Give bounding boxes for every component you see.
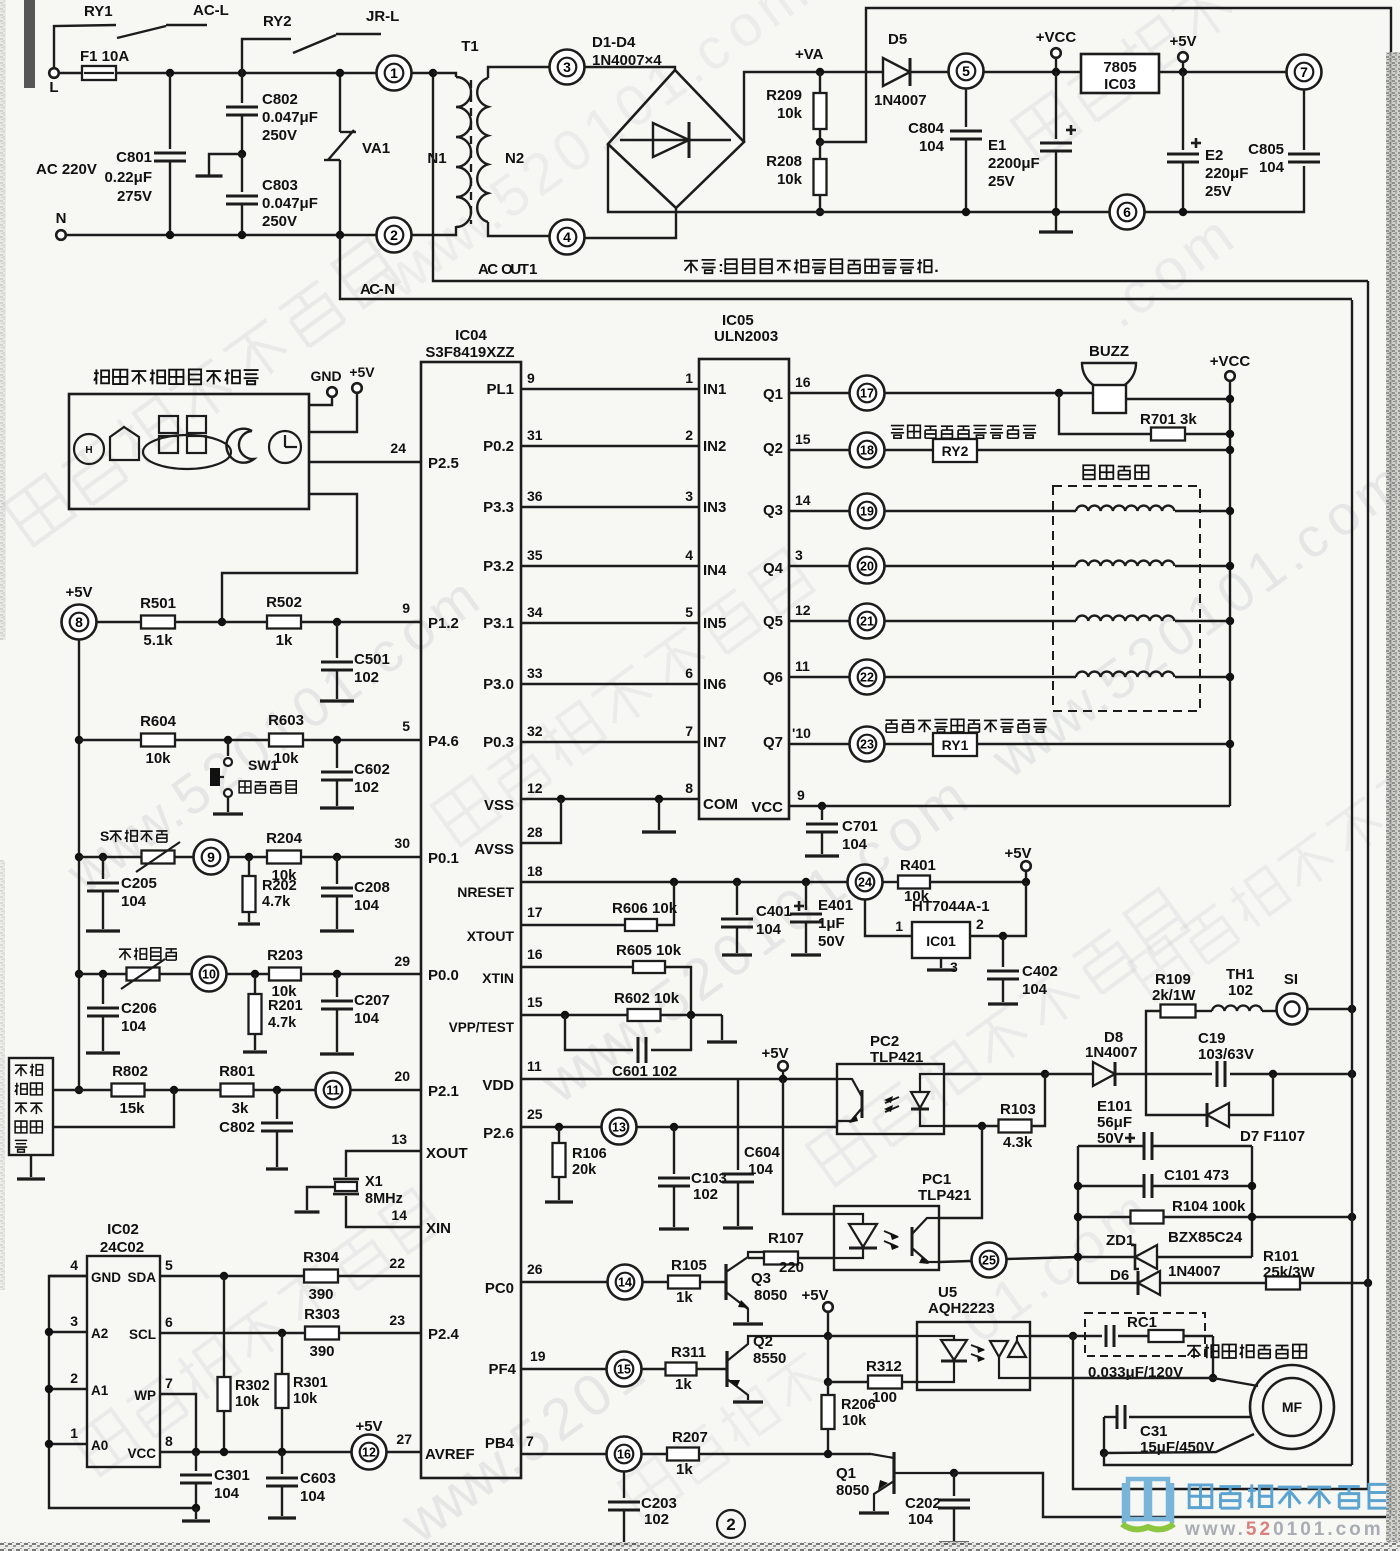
svg-text:6: 6 (165, 1314, 173, 1330)
node C101 r (1248, 1182, 1256, 1190)
wire L to fuse (59, 72, 82, 74)
wire VPP/TEST pin15 (521, 1014, 627, 1016)
svg-text:1N4007: 1N4007 (1085, 1044, 1138, 1061)
svg-text:9: 9 (527, 370, 535, 386)
wire RY2 to +VCC (977, 449, 1230, 451)
svg-text:VCC: VCC (127, 1446, 156, 1461)
svg-text:F1 10A: F1 10A (80, 48, 129, 65)
wire C31 left down (1103, 1417, 1105, 1453)
svg-text:XTOUT: XTOUT (467, 928, 515, 944)
test point 23 (850, 727, 885, 762)
svg-text:R701 3k: R701 3k (1140, 411, 1197, 428)
svg-text:21: 21 (860, 615, 874, 629)
wire stepper row pin12 (789, 620, 849, 622)
capacitor C206 104 (102, 974, 104, 1004)
label fan motor (1187, 1344, 1306, 1358)
svg-text:7: 7 (685, 723, 693, 739)
svg-text:N: N (56, 210, 67, 227)
node VSS a (557, 795, 565, 803)
test point 24 (848, 865, 883, 900)
svg-text:C603: C603 (300, 1470, 336, 1487)
bridge rectifier D1-D4 (608, 70, 744, 208)
capacitor C103 102 (673, 1127, 675, 1174)
svg-text:23: 23 (389, 1312, 405, 1328)
resistor R303 390 (305, 1327, 339, 1340)
svg-text:0.22μF: 0.22μF (104, 169, 152, 186)
svg-text:T1: T1 (461, 38, 479, 55)
svg-text:32: 32 (527, 723, 543, 739)
svg-text:Q2: Q2 (763, 440, 783, 457)
svg-text:VSS: VSS (484, 797, 514, 814)
capacitor C805 104 (1303, 89, 1305, 150)
svg-text:103/63V: 103/63V (1198, 1046, 1254, 1063)
wire TP3 to bridge (585, 67, 675, 71)
wire AVSS (521, 799, 561, 843)
svg-text:1k: 1k (676, 1461, 693, 1478)
svg-text:E1: E1 (988, 137, 1006, 154)
wire motor lead 1 (1213, 1378, 1258, 1386)
svg-text:-: - (379, 281, 384, 298)
svg-text:C802: C802 (219, 1119, 255, 1136)
svg-text:A0: A0 (91, 1438, 108, 1453)
logo book icon (1124, 1479, 1172, 1523)
logo text blue (1189, 1484, 1388, 1508)
capacitor C202 104 (953, 1473, 955, 1496)
svg-text:27: 27 (396, 1431, 412, 1447)
svg-text:P2.5: P2.5 (428, 455, 459, 472)
test point 19 (850, 494, 885, 529)
svg-text:24: 24 (858, 876, 872, 890)
resistor R107 220 (764, 1252, 798, 1265)
svg-text:1N4007: 1N4007 (874, 92, 927, 109)
svg-text:9: 9 (207, 849, 215, 865)
svg-text:P1.2: P1.2 (428, 615, 459, 632)
svg-text:10k: 10k (273, 750, 299, 767)
svg-text:10k: 10k (235, 1394, 260, 1410)
node C602 (333, 736, 341, 744)
node C101 l (1074, 1182, 1082, 1190)
wire sensor second output (53, 1090, 174, 1127)
svg-text:C803: C803 (262, 177, 298, 194)
node +5V P4.6 (75, 736, 83, 744)
svg-text:R106: R106 (572, 1146, 607, 1162)
test point 9 (194, 840, 229, 875)
node R104 l (1074, 1213, 1082, 1221)
wire PC1 cathode to R107 (798, 1257, 834, 1259)
svg-text:15k: 15k (119, 1100, 145, 1117)
wire IC02 pin 2 (49, 1388, 87, 1390)
svg-text:R105: R105 (671, 1257, 707, 1274)
svg-text:C19: C19 (1198, 1030, 1226, 1047)
svg-text:Q3: Q3 (763, 502, 783, 519)
wire PC1 anode from VDD (783, 1079, 834, 1214)
capacitor C804 104 (965, 89, 967, 127)
svg-text:250V: 250V (262, 127, 297, 144)
svg-text:390: 390 (309, 1343, 334, 1360)
svg-text:3: 3 (950, 959, 958, 975)
diode D8 1N4007 (1045, 1073, 1093, 1075)
node Q2 +5V (824, 1332, 832, 1340)
resistor R603 10k (269, 734, 303, 747)
display icon ellipse (143, 435, 231, 469)
svg-text:R204: R204 (266, 830, 303, 847)
svg-text:PF4: PF4 (488, 1361, 516, 1378)
fuse F1 10A (82, 66, 116, 80)
wire IC01 pin1 (865, 900, 912, 936)
svg-text:13: 13 (391, 1131, 407, 1147)
svg-text:L: L (49, 79, 58, 96)
svg-text:16: 16 (617, 1448, 631, 1462)
svg-text:+5V: +5V (761, 1045, 788, 1062)
svg-text:P2.1: P2.1 (428, 1083, 459, 1100)
svg-text:WP: WP (134, 1388, 156, 1403)
wire R103 to PC1 collector (939, 1126, 982, 1218)
svg-text:D5: D5 (888, 31, 907, 48)
svg-text:IN4: IN4 (703, 562, 727, 579)
test point 10 (192, 957, 227, 992)
wire SCL (160, 1332, 305, 1334)
node VSS b (655, 795, 663, 803)
wire motor box bottom (1104, 1453, 1352, 1465)
svg-text:14: 14 (618, 1276, 632, 1290)
wire U5 triac out (1030, 1377, 1213, 1379)
svg-text:3: 3 (70, 1313, 78, 1329)
wire AC-L main (116, 72, 376, 74)
relay RY2 box (933, 439, 977, 462)
svg-text:C31: C31 (1140, 1423, 1168, 1440)
resistor R103 4.3k (999, 1120, 1032, 1133)
node ACN SI (1348, 1005, 1356, 1013)
transformer T1 primary N1 (456, 77, 471, 227)
svg-text:104: 104 (121, 893, 147, 910)
svg-text:VDD: VDD (482, 1077, 514, 1094)
svg-text:R203: R203 (267, 947, 303, 964)
node +5V P0.0 (75, 970, 83, 978)
svg-text:C207: C207 (354, 992, 390, 1009)
svg-text:R603: R603 (268, 712, 304, 729)
wire SDA (160, 1275, 304, 1277)
svg-text:5: 5 (402, 718, 410, 734)
node C208 (333, 853, 341, 861)
resistor R203 10k (269, 968, 301, 981)
ground VPP (721, 1015, 723, 1040)
svg-text:R604: R604 (140, 713, 177, 730)
test point 3 (550, 50, 585, 85)
svg-text:VCC: VCC (751, 799, 783, 816)
svg-text:34: 34 (527, 604, 543, 620)
node R106 top (555, 1123, 563, 1131)
wire VDD pin11 (521, 1078, 837, 1080)
svg-text:102: 102 (693, 1186, 718, 1203)
svg-text:IN1: IN1 (703, 381, 726, 398)
svg-text:13: 13 (612, 1121, 626, 1135)
svg-text:1k: 1k (675, 1376, 692, 1393)
svg-text:SCL: SCL (129, 1327, 156, 1342)
svg-text:RY2: RY2 (942, 443, 969, 459)
svg-text:R109: R109 (1155, 971, 1191, 988)
wire sensor row (53, 1089, 112, 1091)
svg-text:2: 2 (390, 227, 398, 243)
node C804 bottom (962, 208, 970, 216)
svg-text:15: 15 (527, 994, 543, 1010)
node +VCC buzzer (1226, 395, 1234, 403)
svg-text:R501: R501 (140, 595, 176, 612)
svg-text:5: 5 (685, 604, 693, 620)
relay contact RY1 (54, 25, 116, 68)
node +VCC RY2 (1226, 446, 1234, 454)
node C207 (333, 970, 341, 978)
svg-text:C103: C103 (691, 1170, 727, 1187)
svg-text:2: 2 (70, 1370, 78, 1386)
capacitor C207 104 (336, 974, 338, 997)
resistor R301 10k (281, 1333, 283, 1374)
test point 1 (377, 56, 412, 91)
svg-text:Q7: Q7 (763, 734, 783, 751)
capacitor C802 (241, 73, 243, 103)
svg-text:3: 3 (563, 59, 571, 75)
node A2 (45, 1328, 53, 1336)
node SDA (220, 1272, 228, 1280)
svg-text:C804: C804 (908, 120, 945, 137)
node +5V sensor (75, 1086, 83, 1094)
svg-text:PC1: PC1 (922, 1171, 951, 1188)
capacitor C31 15uF/450V (1104, 1416, 1117, 1418)
wire IC02 pin 3 (49, 1331, 87, 1333)
wire AC OUT1 (433, 77, 1368, 281)
svg-text:C805: C805 (1248, 141, 1284, 158)
resistor R202 4.7k (248, 857, 250, 876)
fan speed sensor box (9, 1058, 53, 1155)
svg-text:10k: 10k (777, 105, 803, 122)
svg-text:22: 22 (389, 1255, 405, 1271)
node R104 acn (1348, 1213, 1356, 1221)
svg-text:AQH2223: AQH2223 (928, 1300, 995, 1317)
svg-text:4: 4 (563, 229, 571, 245)
svg-text:R606 10k: R606 10k (612, 900, 678, 917)
svg-text:COM: COM (703, 796, 738, 813)
node C206 (99, 970, 107, 978)
wire IC01 pin2 (970, 882, 1026, 936)
svg-text:R303: R303 (304, 1306, 340, 1323)
node +VCC coil (1226, 617, 1234, 625)
svg-text:1k: 1k (676, 1289, 693, 1306)
wire PB4 pin7 (521, 1453, 606, 1455)
svg-text:1: 1 (895, 918, 903, 934)
node motor top (1209, 1374, 1217, 1382)
test point 7 (1287, 55, 1322, 90)
svg-text:15: 15 (795, 431, 811, 447)
capacitor C401 104 (736, 882, 738, 915)
svg-text:4.7k: 4.7k (262, 894, 291, 910)
svg-text:8: 8 (75, 614, 83, 630)
diode D7 F1107 (1146, 1074, 1207, 1115)
scan marks left edge (0, 0, 6, 640)
svg-text:+5V: +5V (801, 1287, 828, 1304)
svg-text:4.7k: 4.7k (268, 1015, 297, 1031)
svg-text:26: 26 (527, 1261, 543, 1277)
stepper dashed box (1053, 486, 1200, 711)
svg-text:GND: GND (91, 1270, 121, 1285)
wire RC1 to motor node (1212, 1336, 1214, 1378)
svg-text:ZD1: ZD1 (1106, 1232, 1134, 1249)
node C802-C803 (238, 150, 246, 158)
svg-text:18: 18 (527, 863, 543, 879)
node R802-R801 (170, 1086, 178, 1094)
svg-text:P0.3: P0.3 (483, 734, 514, 751)
node C701 (818, 802, 826, 810)
test point 22 (850, 660, 885, 695)
wire R606 pin17 (521, 924, 625, 926)
node A0 (45, 1440, 53, 1448)
node R301-VCC (278, 1448, 286, 1456)
pushbutton SW1 (227, 740, 229, 756)
svg-text:www.520101.com: www.520101.com (1184, 1519, 1384, 1540)
node C401 top (733, 878, 741, 886)
transistor Q1 8050 (892, 1452, 895, 1494)
node +VCC R701 (1226, 430, 1234, 438)
wire PC2 cathode (944, 1125, 999, 1127)
node +5V P0.1 (75, 853, 83, 861)
watermark (4, 239, 399, 546)
display icon clock (269, 431, 301, 463)
label stepping motor (1083, 465, 1148, 479)
wire PC1 emitter to TP25 (939, 1261, 971, 1262)
wire PF4 pin19 (521, 1368, 606, 1370)
wire P0.0 row (79, 973, 127, 975)
capacitor C803 (241, 154, 243, 192)
label room temp sensor (100, 828, 167, 844)
label heater relay (891, 425, 1036, 438)
IC U4 S3F8419XZZ box (421, 362, 521, 1478)
transistor Q2 8550 (725, 1351, 728, 1387)
svg-text:390: 390 (308, 1286, 333, 1303)
svg-text:R209: R209 (766, 87, 802, 104)
svg-text:P0.1: P0.1 (428, 850, 459, 867)
wire display P2.5 pin24 (309, 461, 421, 463)
svg-text:5: 5 (165, 1257, 173, 1273)
svg-text:VPP/TEST: VPP/TEST (449, 1020, 515, 1035)
wire +5V to U5 (828, 1335, 917, 1337)
node R104 r (1248, 1213, 1256, 1221)
svg-text:R602 10k: R602 10k (614, 990, 680, 1007)
wire TP5 right (983, 71, 1081, 73)
svg-text:12: 12 (527, 780, 543, 796)
svg-text:C206: C206 (121, 1000, 157, 1017)
svg-text:IC05: IC05 (722, 312, 754, 329)
node R209-R208 (816, 138, 824, 146)
svg-text:'10: '10 (792, 725, 811, 741)
svg-text:R304: R304 (303, 1249, 340, 1266)
svg-text:2: 2 (976, 916, 984, 932)
svg-text:Q1: Q1 (763, 386, 783, 403)
svg-text:14: 14 (795, 492, 811, 508)
svg-text:SDA: SDA (127, 1270, 156, 1285)
svg-text:R107: R107 (768, 1230, 804, 1247)
svg-text:IN7: IN7 (703, 734, 726, 751)
wire Q1 buzzer row pin16 (789, 392, 849, 394)
svg-text:R103: R103 (1000, 1101, 1036, 1118)
svg-text:50V: 50V (818, 933, 845, 950)
node E401 top (802, 878, 810, 886)
resistor R101 25k/3W (1266, 1277, 1300, 1290)
svg-text:10k: 10k (145, 750, 171, 767)
test point 21 (850, 604, 885, 639)
svg-text:10k: 10k (293, 1391, 318, 1407)
svg-text:IC02: IC02 (107, 1221, 139, 1238)
inductor TH1 102 (1212, 1005, 1262, 1011)
svg-text:R302: R302 (235, 1378, 270, 1394)
svg-text:XOUT: XOUT (426, 1145, 468, 1162)
svg-text:R502: R502 (266, 594, 302, 611)
wire PC2 anode to D8 net (944, 1073, 1045, 1075)
wire TP4 to bridge (585, 208, 676, 238)
svg-text:C604: C604 (744, 1144, 781, 1161)
svg-text:23: 23 (860, 738, 874, 752)
node +VCC coil (1226, 562, 1234, 570)
node R206 bottom (824, 1450, 832, 1458)
svg-text:D1-D4: D1-D4 (592, 34, 636, 51)
svg-text:Q4: Q4 (763, 560, 784, 577)
transistor Q3 8050 (724, 1264, 727, 1300)
capacitor C801 (169, 73, 171, 149)
display icon moon (226, 429, 254, 463)
svg-text:AVREF: AVREF (425, 1446, 475, 1463)
node +VCC coil (1226, 673, 1234, 681)
svg-text:R206: R206 (841, 1397, 876, 1413)
svg-text:104: 104 (300, 1488, 326, 1505)
node C205 (99, 853, 107, 861)
svg-text:17: 17 (860, 387, 874, 401)
svg-text:19: 19 (860, 505, 874, 519)
terminal +5V top (1178, 52, 1188, 62)
wire bottom power rail (608, 144, 1110, 212)
svg-text:R801: R801 (219, 1063, 255, 1080)
svg-text:R104 100k: R104 100k (1172, 1198, 1246, 1215)
svg-text:PB4: PB4 (485, 1435, 515, 1452)
svg-text:220μF: 220μF (1205, 165, 1248, 182)
node junction L-C801 (166, 69, 174, 77)
ground at C802-C803 (209, 154, 242, 175)
resistor R106 20k (558, 1127, 560, 1144)
svg-text:33: 33 (527, 665, 543, 681)
svg-text:102: 102 (1228, 982, 1253, 999)
varistor VA1 (339, 73, 341, 132)
svg-text:RC1: RC1 (1127, 1314, 1157, 1331)
motor MF (1250, 1365, 1334, 1449)
stepper coil (1076, 506, 1174, 511)
svg-text:35: 35 (527, 547, 543, 563)
svg-text:R301: R301 (293, 1375, 328, 1391)
ground at VSS (658, 799, 660, 830)
resistor RC1 (1118, 1335, 1149, 1337)
terminal L (49, 68, 59, 78)
svg-text:D7 F1107: D7 F1107 (1240, 1128, 1305, 1145)
test point 18 (850, 433, 885, 468)
svg-text:A1: A1 (91, 1383, 109, 1398)
svg-text:8MHz: 8MHz (365, 1191, 403, 1207)
node R302-VCC (220, 1448, 228, 1456)
svg-text:+5V: +5V (349, 364, 375, 380)
svg-text:102: 102 (354, 669, 379, 686)
svg-text:8050: 8050 (754, 1287, 787, 1304)
snubber RC1 dashed box (1085, 1313, 1205, 1356)
capacitor C101 473 (1078, 1185, 1144, 1187)
resistor R208 10k (819, 142, 821, 158)
resistor R311 1k (666, 1363, 697, 1376)
wire IC02 pin 1 (49, 1443, 87, 1445)
wire Q7 relay row pin10 (789, 743, 849, 745)
svg-text:R101: R101 (1263, 1248, 1299, 1265)
